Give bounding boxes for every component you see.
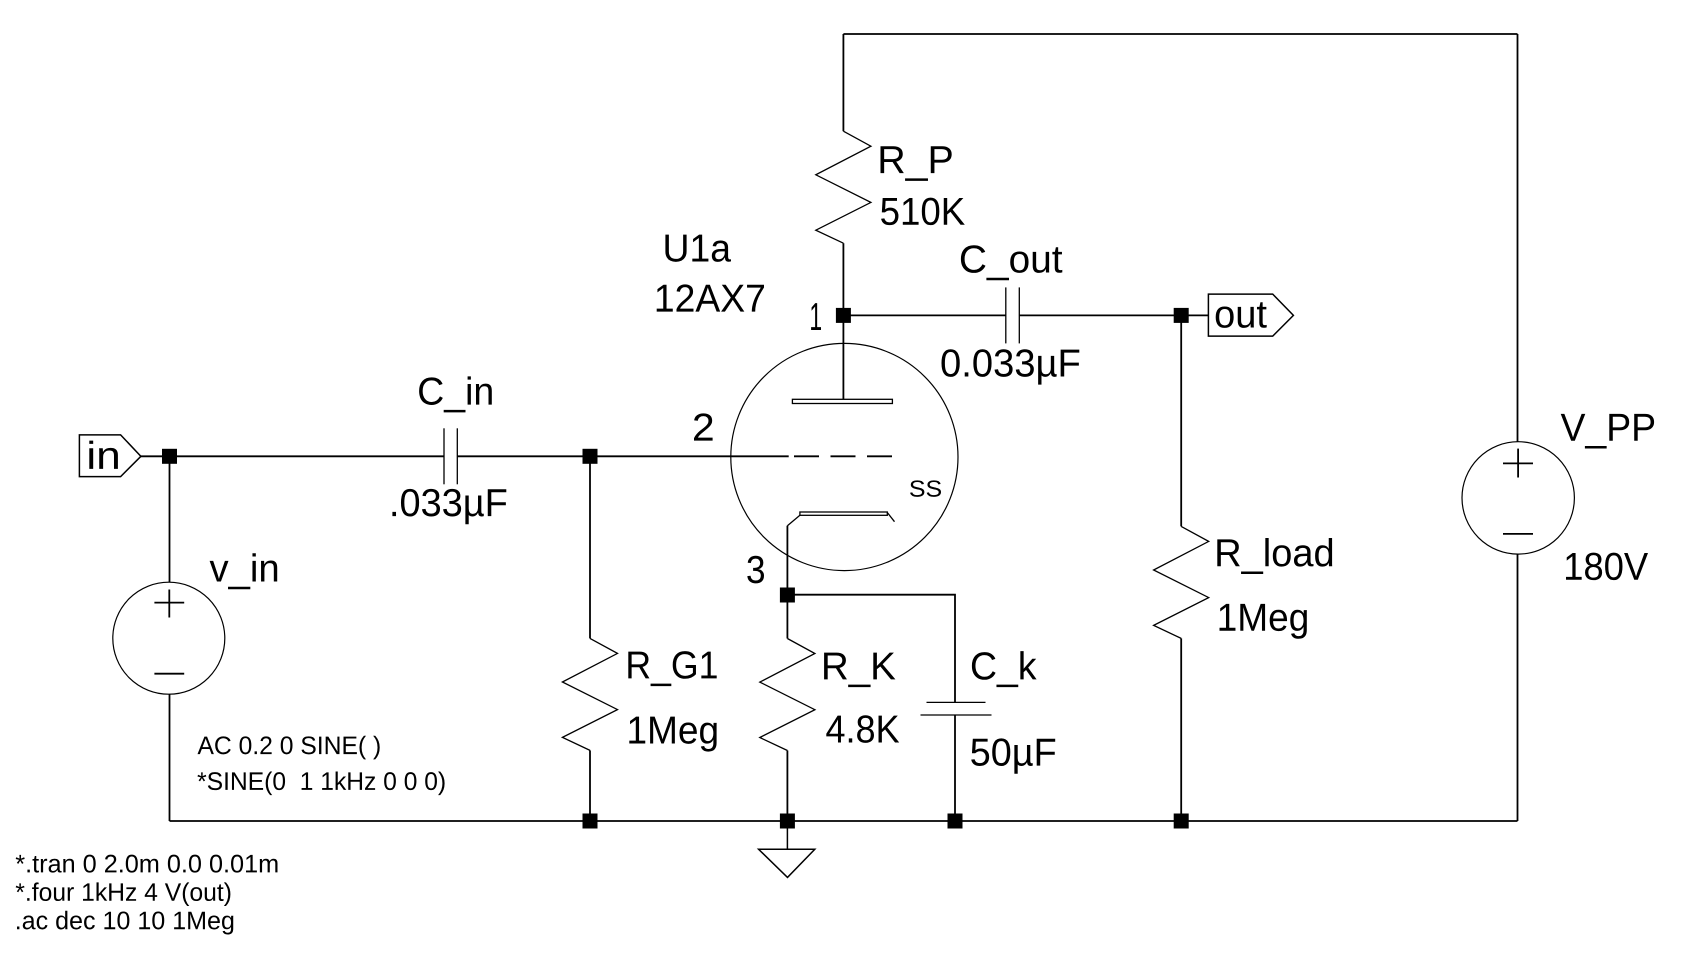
- resistor R_K: [760, 595, 815, 821]
- node plate junction: [836, 308, 851, 323]
- capacitor C_k: [921, 702, 992, 715]
- node rail Ck junction: [948, 814, 963, 829]
- label R_P: [880, 146, 951, 181]
- value 4.8K: [826, 715, 899, 743]
- wire node3 to C_k: [787, 595, 955, 703]
- resistor R_load: [1154, 315, 1209, 821]
- node rail RG1 junction: [583, 814, 598, 829]
- label R_G1: [628, 651, 716, 686]
- wire plate node to C_out: [843, 314, 1005, 316]
- resistor R_P: [816, 34, 871, 315]
- value .033uF: [392, 489, 506, 524]
- label C_out: [961, 245, 1062, 280]
- port out: [1208, 294, 1293, 336]
- label R_K: [824, 653, 895, 688]
- label in: [89, 441, 118, 469]
- value AC line2: [197, 771, 444, 795]
- wire C_out to out node: [1019, 314, 1208, 316]
- grid dashed electrode: [794, 455, 892, 457]
- wire bottom ground rail: [170, 820, 1518, 822]
- capacitor C_in: [444, 428, 457, 484]
- value 510K: [881, 198, 965, 226]
- node rail RK junction: [780, 814, 795, 829]
- anode plate: [792, 399, 892, 403]
- value 50uF: [971, 738, 1055, 773]
- label v_in: [210, 553, 278, 589]
- value 1Meg: [1220, 604, 1307, 639]
- value AC line1: [197, 736, 379, 760]
- value 12AX7: [657, 284, 764, 311]
- pin 1: [811, 303, 821, 330]
- port in: [79, 435, 140, 477]
- node in junction: [162, 449, 177, 464]
- spice directive .ac: [17, 911, 233, 935]
- wire in node to C_in: [170, 455, 445, 457]
- cathode: [787, 512, 894, 526]
- capacitor C_out: [1006, 287, 1020, 343]
- value 180V: [1566, 553, 1648, 581]
- value 0.033uF: [942, 349, 1080, 384]
- voltage source V_PP: [1462, 34, 1574, 821]
- wire in port to node: [141, 455, 170, 457]
- node rail Rload junction: [1174, 814, 1189, 829]
- pin 3: [747, 556, 764, 584]
- node cathode junction: [780, 588, 795, 603]
- resistor R_G1: [562, 456, 617, 821]
- label C_k: [972, 651, 1037, 687]
- wire plate lead: [842, 315, 844, 399]
- op-amp U1a triode tube 12AX7 envelope: [731, 343, 958, 570]
- voltage source v_in: [113, 456, 225, 821]
- label C_in: [419, 376, 492, 412]
- wire C_k to rail: [954, 715, 956, 821]
- spice directive .tran: [16, 855, 278, 873]
- node out junction: [1174, 308, 1189, 323]
- label SS: [910, 480, 941, 496]
- node grid junction: [583, 449, 598, 464]
- wire grid node to tube: [590, 455, 789, 457]
- wire cathode lead: [786, 526, 788, 595]
- label R_load: [1217, 538, 1332, 574]
- ground: [759, 821, 815, 877]
- pin 2: [694, 413, 713, 440]
- wire top rail from R_P to V_PP: [843, 33, 1517, 35]
- label V_PP: [1561, 414, 1654, 449]
- value 1Meg: [629, 717, 716, 752]
- label U1a: [665, 235, 731, 262]
- spice directive .four: [16, 882, 231, 906]
- wire C_in to grid node: [457, 455, 590, 457]
- label out: [1216, 302, 1267, 328]
